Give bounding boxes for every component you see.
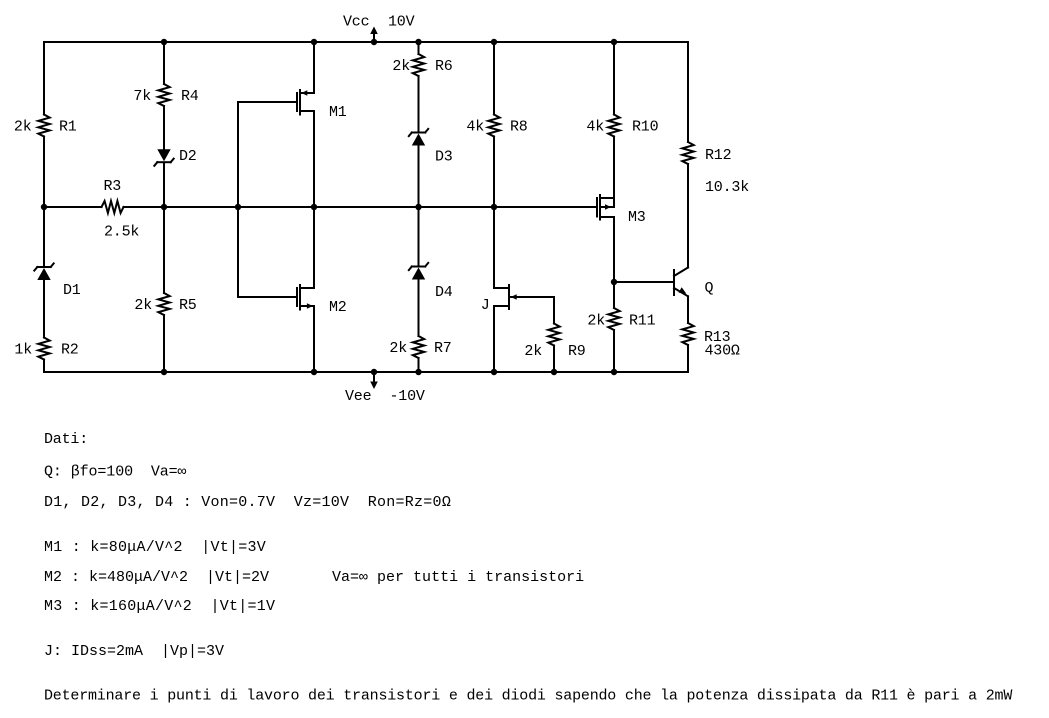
wire R4-D2 column upper <box>163 42 165 84</box>
svg-text:R2: R2 <box>61 342 79 359</box>
wire M1 drain to Vcc <box>313 42 315 93</box>
junction on Vcc rail x=164 <box>161 39 167 45</box>
svg-text:D1, D2, D3, D4 : Von=0.7V Vz=: D1, D2, D3, D4 : Von=0.7V Vz=10V Ron=Rz=… <box>44 494 451 511</box>
svg-text:Q: Q <box>705 280 714 297</box>
resistor R10 <box>608 115 619 137</box>
wire M2 source to Vee rail <box>313 306 315 372</box>
zener diode D2 <box>157 161 170 163</box>
svg-text:Vee: Vee <box>345 388 372 405</box>
svg-text:M2 : k=480μA/V^2 |Vt|=2V: M2 : k=480μA/V^2 |Vt|=2V Va=∞ per tutti … <box>44 569 584 586</box>
junction on middle rail x=44 <box>41 204 47 210</box>
svg-text:R1: R1 <box>59 119 77 136</box>
svg-text:M1 : k=80μA/V^2 |Vt|=3V: M1 : k=80μA/V^2 |Vt|=3V <box>44 539 266 556</box>
zener diode D4 <box>412 266 425 268</box>
junction on Vee rail x=314 <box>311 369 317 375</box>
wire R5 column <box>163 207 165 293</box>
svg-text:2k: 2k <box>587 313 605 330</box>
junction on Vee rail x=494 <box>491 369 497 375</box>
svg-text:10V: 10V <box>388 14 415 31</box>
wire left column upper (R1 branch) <box>43 42 45 115</box>
resistor R8 <box>488 115 499 137</box>
svg-text:Q: βfo=100 Va=∞: Q: βfo=100 Va=∞ <box>44 464 187 481</box>
svg-text:Dati:: Dati: <box>44 431 88 448</box>
resistor R6 <box>413 54 424 76</box>
svg-text:R6: R6 <box>435 58 453 75</box>
junction on Vcc rail x=374 <box>371 39 377 45</box>
wire J source to Vee rail <box>493 306 495 372</box>
svg-text:R12: R12 <box>705 147 731 164</box>
zener diode D3 <box>412 132 425 134</box>
wire mid rail to J drain <box>493 207 495 288</box>
wire R11 to Vee rail <box>613 330 615 372</box>
junction on middle rail x=494 <box>491 204 497 210</box>
wire left column lower (D1-R2 branch) <box>43 207 45 267</box>
power Vee arrow <box>373 372 375 382</box>
wire M1 source to mid node <box>313 111 315 207</box>
svg-text:1k: 1k <box>14 342 32 359</box>
resistor R12 <box>682 142 693 164</box>
svg-text:R4: R4 <box>181 88 199 105</box>
svg-text:4k: 4k <box>586 119 604 136</box>
resistor R13 <box>682 323 693 345</box>
svg-text:J: J <box>481 297 490 314</box>
svg-text:R8: R8 <box>510 119 528 136</box>
junction node Q base / M3 source / R11 <box>611 279 617 285</box>
junction on middle rail x=314 <box>311 204 317 210</box>
wire Q base lead <box>614 281 674 283</box>
wire R10 column <box>613 42 615 115</box>
svg-text:M1: M1 <box>329 104 347 121</box>
resistor R5 <box>158 293 169 315</box>
resistor R2 <box>38 338 49 360</box>
wire top supply rail Vcc <box>44 41 688 43</box>
svg-text:M2: M2 <box>329 299 347 316</box>
svg-text:4k: 4k <box>466 119 484 136</box>
svg-text:M3: M3 <box>628 209 646 226</box>
svg-text:2.5k: 2.5k <box>104 224 139 241</box>
svg-text:D4: D4 <box>435 284 453 301</box>
junction on Vcc rail x=418.5 <box>415 39 421 45</box>
wire R4-D2 column lower <box>163 163 165 207</box>
wire node to R11 <box>613 282 615 308</box>
svg-text:R3: R3 <box>104 178 122 195</box>
junction on Vcc rail x=494 <box>491 39 497 45</box>
wire middle rail (node between stages) <box>44 206 102 208</box>
wire M3 source down to node <box>613 217 615 282</box>
wire R13 to Vee rail <box>687 345 689 372</box>
transistor M3 (MOSFET) <box>596 198 598 217</box>
wire M2 drain from mid node <box>313 207 315 288</box>
svg-text:-10V: -10V <box>390 388 425 405</box>
svg-text:R9: R9 <box>568 343 586 360</box>
resistor R7 <box>413 336 424 358</box>
wire R12 column <box>687 42 689 142</box>
wire R8 column <box>493 42 495 115</box>
wire R6-D3 column <box>418 42 420 54</box>
svg-text:J: IDss=2mA |Vp|=3V: J: IDss=2mA |Vp|=3V <box>44 643 224 660</box>
wire Q emitter to R13 <box>687 296 689 323</box>
svg-text:10.3k: 10.3k <box>705 179 749 196</box>
resistor R9 <box>548 324 559 346</box>
svg-text:D1: D1 <box>63 282 81 299</box>
wire mid rail to D4 <box>418 207 420 266</box>
wire D3 to mid rail <box>418 145 420 207</box>
zener diode D1 <box>37 266 50 268</box>
wire gate bus of M1/M2 <box>237 102 239 297</box>
junction on middle rail x=418.5 <box>415 204 421 210</box>
transistor M1 (PMOS) <box>296 93 298 111</box>
resistor R11 <box>608 308 619 330</box>
svg-text:R5: R5 <box>179 297 197 314</box>
wire M2 gate lead <box>238 296 296 298</box>
svg-text:2k: 2k <box>524 343 542 360</box>
junction on Vee rail x=418.5 <box>415 369 421 375</box>
junction on Vee rail x=164 <box>161 369 167 375</box>
wire R9 to Vee rail <box>553 346 555 373</box>
resistor R4 <box>158 84 169 106</box>
junction on Vcc rail x=614 <box>611 39 617 45</box>
svg-text:R10: R10 <box>632 119 659 136</box>
svg-text:Vcc: Vcc <box>343 14 369 31</box>
svg-text:D3: D3 <box>435 149 453 166</box>
transistor J (JFET) <box>508 285 510 309</box>
svg-text:2k: 2k <box>392 58 410 75</box>
svg-text:R7: R7 <box>434 340 452 357</box>
svg-text:D2: D2 <box>179 148 197 165</box>
junction on Vee rail x=554 <box>551 369 557 375</box>
wire J gate to R9 <box>517 296 554 298</box>
svg-text:2k: 2k <box>14 119 32 136</box>
svg-text:2k: 2k <box>134 297 152 314</box>
svg-text:430Ω: 430Ω <box>705 343 740 360</box>
resistor R3 (horizontal) <box>102 201 124 213</box>
junction on Vcc rail x=314 <box>311 39 317 45</box>
svg-text:R11: R11 <box>629 313 656 330</box>
transistor Q (NPN BJT) <box>673 270 675 295</box>
wire M1 gate lead <box>238 101 296 103</box>
resistor R1 <box>38 115 49 137</box>
svg-text:M3 : k=160μA/V^2 |Vt|=1V: M3 : k=160μA/V^2 |Vt|=1V <box>44 598 275 615</box>
junction on Vee rail x=614 <box>611 369 617 375</box>
power Vcc arrow <box>373 33 375 42</box>
junction on middle rail x=164 <box>161 204 167 210</box>
svg-text:7k: 7k <box>133 88 151 105</box>
junction on Vee rail x=374 <box>371 369 377 375</box>
wire D4-R7 column <box>418 280 420 336</box>
wire middle rail continued to M3 gate <box>124 206 597 208</box>
junction on middle rail x=238 <box>235 204 241 210</box>
wire bottom supply rail Vee <box>44 371 688 373</box>
transistor M2 (NMOS) <box>296 288 298 306</box>
svg-text:Determinare i punti di lavoro: Determinare i punti di lavoro dei transi… <box>44 688 1012 705</box>
svg-text:2k: 2k <box>389 340 407 357</box>
